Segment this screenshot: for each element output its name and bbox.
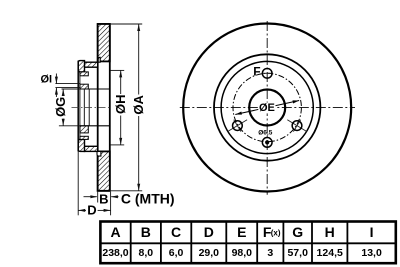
svg-text:D: D [204, 224, 214, 240]
svg-text:ØA: ØA [131, 94, 146, 114]
svg-text:3: 3 [267, 247, 273, 259]
svg-text:98,0: 98,0 [232, 247, 253, 259]
svg-text:I: I [370, 224, 374, 240]
svg-text:G: G [292, 224, 303, 240]
svg-text:124,5: 124,5 [317, 247, 343, 259]
svg-text:6,0: 6,0 [169, 247, 184, 259]
svg-text:E: E [237, 224, 246, 240]
svg-text:57,0: 57,0 [287, 247, 308, 259]
svg-text:H: H [325, 224, 335, 240]
svg-text:ØG: ØG [53, 97, 68, 117]
svg-text:C (MTH): C (MTH) [121, 190, 175, 206]
svg-text:238,0: 238,0 [102, 247, 128, 259]
svg-text:B: B [141, 224, 151, 240]
svg-text:8,0: 8,0 [138, 247, 153, 259]
svg-text:F: F [253, 64, 260, 78]
svg-text:29,0: 29,0 [199, 247, 220, 259]
svg-text:B: B [99, 191, 108, 206]
svg-text:Ø6,5: Ø6,5 [258, 130, 272, 137]
svg-text:D: D [87, 203, 96, 218]
svg-text:ØI: ØI [40, 73, 52, 85]
svg-text:C: C [171, 224, 181, 240]
svg-text:ØE: ØE [259, 102, 275, 114]
svg-text:(x): (x) [271, 228, 281, 237]
svg-text:13,0: 13,0 [361, 247, 382, 259]
svg-text:A: A [110, 224, 120, 240]
svg-text:ØH: ØH [113, 94, 128, 114]
